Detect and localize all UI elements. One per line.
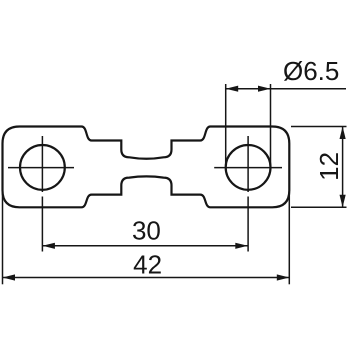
svg-text:Ø6.5: Ø6.5 [283,56,339,86]
12 top extension line [291,126,347,128]
right hole vertical centerline [247,136,249,252]
part outline (strip fuse link body) [3,127,290,208]
dia 6.5 right arrowhead [258,86,271,92]
left hole vertical centerline [41,136,43,252]
12 dimension line [342,127,344,208]
right hole circle [226,145,271,190]
42 left arrowhead [3,274,16,280]
42 left extension line [2,192,4,284]
12 bottom arrowhead [340,195,346,208]
svg-text:30: 30 [132,215,161,245]
dia 6.5 left extension line [225,84,227,165]
dia 6.5 right extension line [270,84,272,165]
42 right arrowhead [277,274,290,280]
30 left arrowhead [42,243,55,249]
left hole circle [20,145,65,190]
dia 6.5 dimension line with leader [226,88,346,90]
svg-text:12: 12 [314,152,344,181]
42 right extension line [288,192,290,284]
30 dimension line [42,245,247,247]
30 right arrowhead [235,243,248,249]
right hole horizontal centerline [214,167,282,169]
42 dimension line [3,277,290,279]
svg-text:42: 42 [133,249,162,279]
12 top arrowhead [340,127,346,140]
12 bottom extension line [291,206,347,208]
left hole horizontal centerline [8,167,74,169]
dia 6.5 left arrowhead [226,86,239,92]
